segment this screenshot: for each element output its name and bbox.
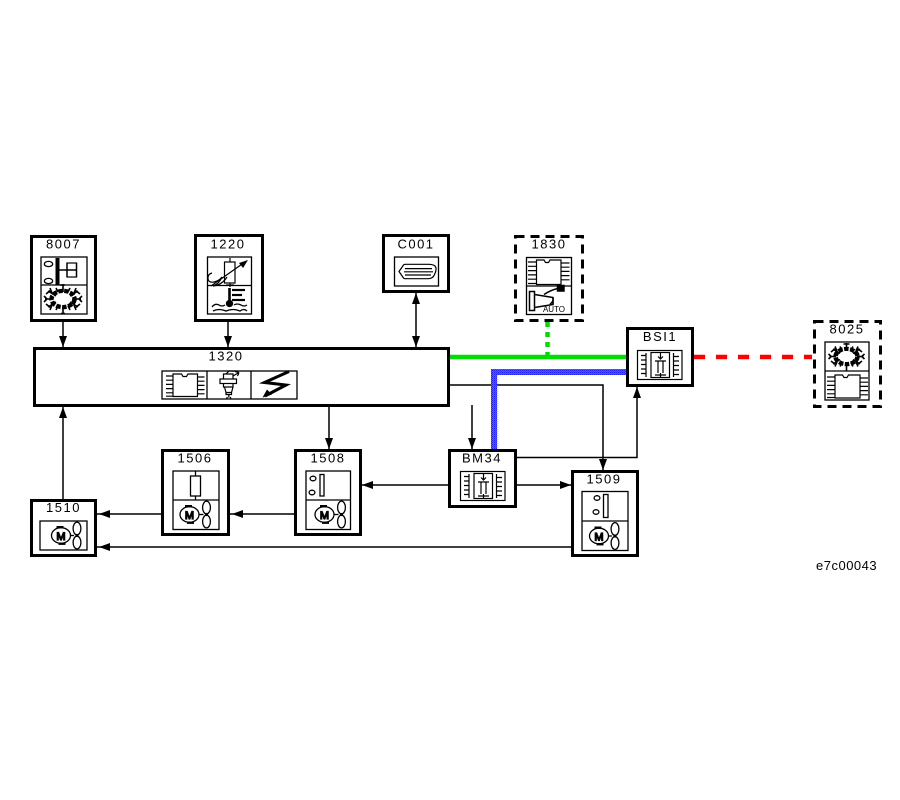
icon ECU chip 1830 xyxy=(528,260,570,285)
svg-text:1510: 1510 xyxy=(46,500,81,515)
svg-text:M: M xyxy=(320,510,329,522)
icon fuel level sensor 1220 xyxy=(208,258,248,287)
wire BM34 to 1509 xyxy=(517,481,571,489)
wire BM34 to BSI1 xyxy=(517,387,641,458)
svg-text:1220: 1220 xyxy=(211,237,246,252)
svg-text:8025: 8025 xyxy=(830,322,865,337)
wire 1506 to 1510 xyxy=(97,510,161,518)
wire 1320 to 1508 xyxy=(325,407,333,449)
svg-text:M: M xyxy=(594,532,603,544)
svg-text:8007: 8007 xyxy=(46,237,81,252)
box 1508 xyxy=(296,451,361,535)
icon pressure switch 8007 xyxy=(44,258,76,285)
icon motor fan 1506 xyxy=(180,501,210,528)
wire CAN green 1320 to BSI1 xyxy=(450,355,626,360)
box 1509 xyxy=(573,472,638,556)
svg-text:BSI1: BSI1 xyxy=(643,329,677,344)
svg-text:1830: 1830 xyxy=(532,237,567,252)
box BM34 xyxy=(450,451,516,507)
box 1506 xyxy=(163,451,229,535)
icon BSI module BSI1 xyxy=(638,351,683,380)
icon relay contact 1508 xyxy=(309,475,324,497)
wire green dashed 1830 drop xyxy=(545,322,550,357)
icon spark 1320 xyxy=(263,372,290,398)
svg-text:M: M xyxy=(185,510,194,522)
svg-text:1508: 1508 xyxy=(311,451,346,466)
icon snowflake 8025 xyxy=(829,343,865,371)
icon resistor 1506 xyxy=(191,471,201,500)
svg-text:BM34: BM34 xyxy=(462,451,502,466)
icon diagnostic connector C001 xyxy=(399,264,436,278)
box 1320 xyxy=(35,349,449,406)
wire 1220 to 1320 xyxy=(224,322,232,347)
svg-text:C001: C001 xyxy=(397,237,434,252)
svg-text:1506: 1506 xyxy=(178,451,213,466)
icon horn AUTO 1830 xyxy=(530,286,565,311)
svg-text:M: M xyxy=(56,531,65,543)
wire 8007 to 1320 xyxy=(59,322,67,347)
box 1220 xyxy=(196,236,263,321)
wire C001 to 1320 (double arrow) xyxy=(412,293,420,347)
icon coolant temperature 1220 xyxy=(212,288,247,311)
icon ECU chip 8025 xyxy=(827,375,868,398)
icon injector 1320 xyxy=(220,371,239,399)
icon ECU chip 1320 xyxy=(166,374,205,397)
wire 1320 to 1509 xyxy=(450,385,607,470)
wire 1320 to BM34 xyxy=(468,405,476,449)
svg-text:1320: 1320 xyxy=(209,349,244,364)
box BSI1 xyxy=(628,329,693,386)
wire 1510 to 1320 xyxy=(59,407,67,499)
icon motor fan 1509 xyxy=(590,523,619,550)
wire BM34 to 1508 xyxy=(362,481,448,489)
svg-text:e7c00043: e7c00043 xyxy=(816,558,877,573)
wire 1509 to 1510 xyxy=(97,543,571,551)
svg-text:AUTO: AUTO xyxy=(543,305,565,314)
icon motor fan 1510 xyxy=(52,522,81,549)
svg-text:1509: 1509 xyxy=(587,472,622,487)
icon motor fan 1508 xyxy=(315,501,345,528)
wire violet BSI1 to BM34 xyxy=(494,372,626,449)
wire 1508 to 1506 xyxy=(230,510,294,518)
box 1830 dashed xyxy=(516,237,583,321)
box 1510 xyxy=(32,500,96,556)
box 8025 dashed xyxy=(815,322,881,407)
icon snowflake 8007 xyxy=(44,284,82,314)
box 8007 xyxy=(32,237,96,321)
icon relay contact 1509 xyxy=(593,495,608,518)
wire red dashed BSI1 to 8025 xyxy=(694,355,812,360)
box C001 xyxy=(384,236,449,292)
icon BSI module BM34 xyxy=(461,472,506,501)
